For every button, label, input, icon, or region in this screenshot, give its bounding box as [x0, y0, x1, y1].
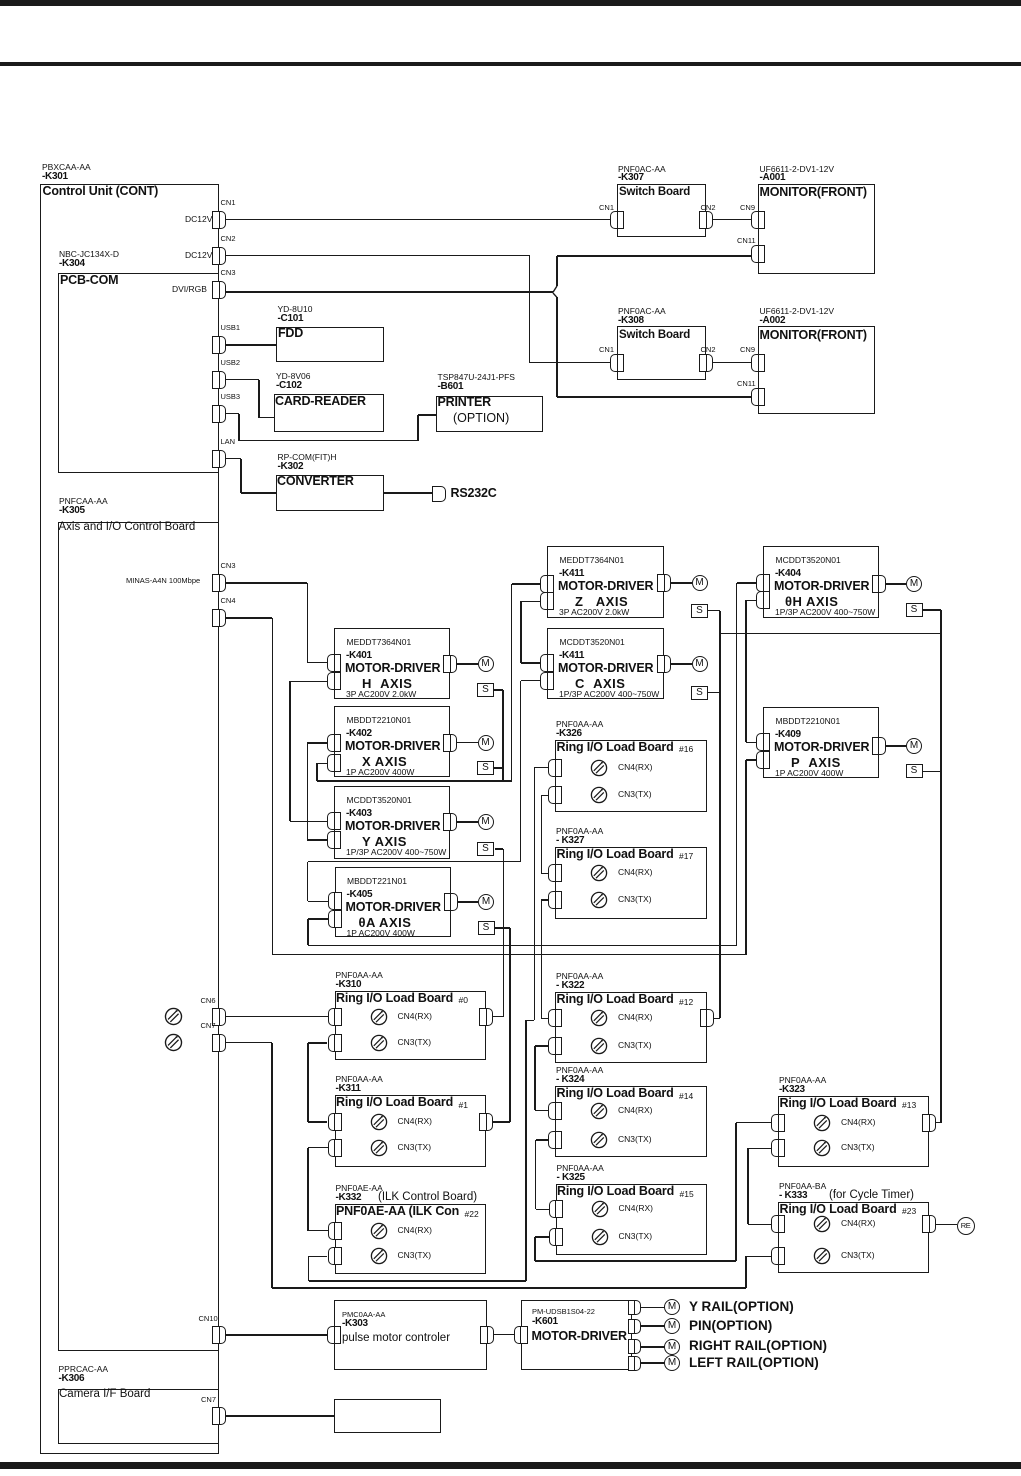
wire up to K326	[525, 1020, 527, 1281]
label UF6611-2-DV1-12V	[760, 307, 835, 316]
label -K307	[618, 173, 644, 184]
wire K411Z lower left	[521, 601, 541, 603]
label -K306	[59, 1374, 85, 1385]
wire USB3 bus to printer	[239, 440, 418, 442]
S symbol K401	[477, 683, 494, 697]
connector CN4(RX) K325	[549, 1200, 563, 1218]
label PNF0AA-AA	[556, 972, 603, 981]
label Z&nbsp;&nbsp;&nbsp;AXIS	[575, 595, 628, 609]
label Ring I/O Load Board	[780, 1203, 897, 1216]
label YD-8U10	[278, 305, 313, 314]
label #22	[465, 1210, 479, 1219]
PCB-COM K304 box	[58, 273, 220, 473]
label CN4(RX)	[398, 1012, 432, 1021]
wire LAN to converter	[241, 492, 276, 494]
motor symbol M K411C	[692, 656, 708, 672]
label PNF0AA-AA	[556, 720, 603, 729]
label #12	[679, 998, 693, 1007]
S symbol K405	[478, 921, 495, 935]
wire into printer	[418, 414, 436, 416]
wire K327 to K322	[541, 900, 543, 1019]
connector CN4(RX) K323	[771, 1114, 785, 1132]
ring I/O load board K325 box	[556, 1184, 708, 1255]
label X AXIS	[362, 755, 407, 769]
label -K403	[346, 809, 372, 820]
wire K404 to K409 down	[745, 600, 747, 742]
axis and I/O control board K305 box	[58, 522, 220, 1351]
connector K405 motor output	[444, 893, 458, 911]
connector CN4(RX) K322	[548, 1009, 562, 1027]
label -B601	[438, 382, 464, 393]
label -K402	[346, 729, 372, 740]
label #0	[459, 996, 468, 1005]
label MINAS-A4N 100Mbpe	[126, 577, 200, 585]
label CN4(RX)	[618, 763, 652, 772]
connector CN4 axis board	[212, 609, 226, 627]
S symbol K402	[477, 761, 494, 775]
label CN3(TX)	[398, 1038, 432, 1047]
ring I/O load board K333 box	[778, 1202, 929, 1273]
label CN2	[221, 235, 236, 243]
wire K325 TX down	[534, 1237, 536, 1261]
symbol CN4 K327	[590, 864, 608, 882]
pulse motor controller K303 box	[334, 1300, 487, 1370]
connector CN4(RX) K311	[328, 1113, 342, 1131]
camera unit box (unlabelled)	[334, 1399, 442, 1434]
motor driver K404 thetaH axis box	[763, 546, 879, 618]
symbol CN3 K326	[590, 786, 608, 804]
wire S K409	[923, 771, 941, 773]
label CN6	[201, 997, 216, 1005]
wire K404 lower left	[746, 600, 757, 602]
symbol CN4 K332	[370, 1222, 388, 1240]
connector USB3	[212, 405, 226, 423]
label -K302	[278, 462, 304, 473]
wire CN2 down	[529, 256, 531, 363]
connector K311 right	[479, 1113, 493, 1131]
wire S bus down to K322	[719, 611, 721, 1019]
wire to K333 RX	[748, 1224, 772, 1226]
label 1P/3P AC200V 400~750W	[559, 690, 659, 699]
wire bus A to K404	[308, 945, 737, 947]
label P&nbsp;&nbsp;AXIS	[791, 756, 841, 770]
wire S K401 down	[502, 690, 504, 781]
switch board K307 box	[617, 184, 706, 238]
wire USB3 down	[238, 414, 240, 441]
wire to K403 upper	[290, 821, 327, 823]
motor driver K601 box	[521, 1300, 632, 1370]
label CN2	[701, 346, 716, 354]
label DC12V	[185, 251, 212, 260]
wire K323 right connector	[936, 1122, 941, 1124]
connector K601 Y RAIL(OPTION)	[628, 1300, 641, 1315]
S symbol K403	[477, 842, 494, 856]
label CN4(RX)	[618, 868, 652, 877]
wire bus B up to CN4	[272, 618, 274, 955]
wire CN10 to K303	[226, 1334, 328, 1336]
connector K333 right	[922, 1215, 936, 1233]
label Axis and I/O Control Board	[59, 521, 196, 533]
label 1P AC200V 400W	[775, 769, 843, 778]
wire K402 lower down	[316, 763, 318, 781]
wire to K324 RX	[535, 1110, 549, 1112]
label -K323	[779, 1085, 805, 1096]
label MOTOR-DRIVER	[774, 741, 869, 754]
connector K323 right	[922, 1114, 936, 1132]
wire to K405 upper	[308, 901, 328, 903]
ring I/O load board K324 box	[555, 1086, 707, 1157]
motor symbol M K403	[478, 814, 494, 830]
connector CN2 K308	[699, 354, 713, 372]
wire K405 lower left	[308, 918, 328, 920]
wire ring return bus	[272, 1287, 746, 1289]
label LAN	[221, 438, 236, 446]
connector CN3(TX) K323	[771, 1139, 785, 1157]
ferrite symbol near CN6	[164, 1007, 183, 1026]
label -K304	[59, 259, 85, 270]
S symbol K404	[906, 603, 923, 617]
connector CN3(TX) K326	[548, 786, 562, 804]
connector CN4(RX) K326	[548, 759, 562, 777]
label PNF0AA-AA	[557, 1164, 604, 1173]
converter K302 box	[276, 475, 384, 511]
label -K332	[336, 1193, 362, 1204]
label 1P AC200V 400W	[347, 929, 415, 938]
label PRINTER	[438, 396, 491, 409]
wire S K405	[495, 927, 510, 929]
wire K323 to K333	[747, 1148, 749, 1224]
wire converter to RS232C	[384, 492, 432, 494]
wire K411C lower left	[521, 680, 541, 682]
label MOTOR-DRIVER	[346, 901, 441, 914]
motor driver K403 Y axis box	[334, 786, 450, 859]
wire USB2 right	[226, 379, 259, 381]
label CN1	[599, 204, 614, 212]
wire under K402 to right	[317, 780, 512, 782]
wire to K327 RX	[541, 873, 548, 875]
wire S K404	[923, 609, 941, 611]
wire K401 lower left	[290, 681, 327, 683]
label MBDDT2210N01	[347, 716, 412, 725]
camera I/F board K306 box	[58, 1389, 219, 1444]
label CN4(RX)	[398, 1226, 432, 1235]
symbol CN3 K332	[370, 1247, 388, 1265]
motor driver K402 X axis box	[334, 706, 450, 777]
label CN4(RX)	[619, 1204, 653, 1213]
connector CN6	[212, 1008, 226, 1026]
wire to K411Z upper	[512, 583, 541, 585]
label -K409	[775, 730, 801, 741]
connector K401 motor output	[443, 655, 457, 673]
wire K326 to K327	[541, 795, 543, 873]
label MONITOR(FRONT)	[760, 329, 867, 342]
wire K405 lower down	[307, 919, 309, 945]
wire to K322 RX	[541, 1018, 548, 1020]
wire K403 to motor	[457, 821, 478, 823]
label Ring I/O Load Board	[780, 1097, 897, 1110]
wire K333 TX down	[745, 1256, 747, 1288]
wire CN3 right	[226, 582, 307, 584]
label PPRCAC-AA	[59, 1365, 109, 1374]
label CN4(RX)	[398, 1117, 432, 1126]
label PNF0AE-AA	[336, 1184, 383, 1193]
wire K401 to K403 down	[289, 681, 291, 821]
wire K311 right connector	[493, 1121, 510, 1123]
connector K411C motor output	[657, 655, 671, 673]
wire S K403	[495, 848, 503, 850]
wire USB3 right	[226, 413, 239, 415]
label 3P AC200V 2.0kW	[559, 608, 629, 617]
wire to motor RIGHT RAIL(OPTION)	[641, 1346, 665, 1348]
connector K404 upper input	[756, 574, 770, 592]
motor symbol M K404	[906, 576, 922, 592]
label PNF0AA-AA	[556, 1066, 603, 1075]
ring I/O load board K332 box	[335, 1204, 487, 1274]
motor symbol M K401	[478, 656, 494, 672]
wire CN1 to K307 CN1	[226, 219, 610, 221]
label -K411	[559, 651, 584, 662]
label CN9	[740, 204, 755, 212]
label CN3(TX)	[618, 895, 652, 904]
wire to A001 CN11	[557, 255, 751, 257]
wire to K323 RX	[736, 1122, 772, 1124]
label USB1	[221, 324, 241, 332]
connector CN3 axis board	[212, 574, 226, 592]
top border bar	[0, 0, 1021, 6]
label - K324	[556, 1075, 584, 1086]
connector CN7 camera board	[212, 1407, 226, 1425]
label PNF0AA-BA	[779, 1182, 826, 1191]
label 1P/3P AC200V 400~750W	[346, 848, 446, 857]
label MOTOR-DRIVER	[774, 580, 869, 593]
connector K403 lower input	[327, 831, 341, 849]
label CN3(TX)	[619, 1232, 653, 1241]
label CN3(TX)	[618, 1135, 652, 1144]
symbol CN4 K322	[590, 1009, 608, 1027]
wire K404 to motor	[886, 583, 907, 585]
wire S K401	[494, 689, 503, 691]
symbol CN3 K324	[590, 1131, 608, 1149]
connector CN2 DC12V	[212, 247, 226, 265]
wire K402 lower left	[317, 763, 327, 765]
label - K325	[557, 1173, 585, 1184]
connector CN3(TX) K325	[549, 1228, 563, 1246]
connector CN1 K308	[610, 354, 624, 372]
label Camera I/F Board	[59, 1388, 150, 1400]
label CN11	[737, 237, 756, 245]
label PCB-COM	[60, 274, 118, 287]
label -K301	[42, 172, 68, 183]
RE symbol	[957, 1217, 975, 1235]
ferrite symbol near CN7	[164, 1033, 183, 1052]
wire S K402	[494, 767, 503, 769]
connector K411Z motor output	[657, 574, 671, 592]
wire K324 TX	[536, 1139, 549, 1141]
label Ring I/O Load Board	[336, 992, 453, 1005]
wire K401 to motor	[457, 663, 478, 665]
label RS232C	[451, 487, 497, 500]
symbol CN4 K333	[813, 1215, 831, 1233]
FDD C101 box	[276, 327, 384, 362]
wire K322 TX	[535, 1045, 549, 1047]
label #16	[679, 745, 693, 754]
symbol CN4 K326	[590, 759, 608, 777]
wire K308 CN2 to A002 CN9	[713, 362, 751, 364]
printer B601 box	[436, 396, 543, 432]
label MEDDT7364N01	[347, 638, 412, 647]
label -K411	[559, 569, 584, 580]
label CN10	[199, 1315, 218, 1323]
connector CN11 A002	[751, 388, 765, 406]
label TSP847U-24J1-PFS	[438, 373, 515, 382]
label - K322	[556, 981, 584, 992]
motor symbol M RIGHT RAIL(OPTION)	[664, 1339, 680, 1355]
connector K403 motor output	[443, 813, 457, 831]
wire to K332 RX	[308, 1230, 328, 1232]
wire USB2 down	[258, 380, 260, 418]
label CN1	[599, 346, 614, 354]
label Ring I/O Load Board	[557, 741, 674, 754]
wire K411C to motor	[671, 663, 692, 665]
symbol CN4 K325	[591, 1200, 609, 1218]
label MBDDT2210N01	[776, 717, 841, 726]
label CN3(TX)	[618, 1041, 652, 1050]
connector CN4(RX) K332	[328, 1222, 342, 1240]
wire down to K405	[307, 862, 309, 902]
wire printer up	[417, 415, 419, 441]
connector USB1	[212, 336, 226, 354]
connector CN3(TX) K311	[328, 1139, 342, 1157]
connector K409 motor output	[872, 737, 886, 755]
label CN4(RX)	[841, 1219, 875, 1228]
symbol CN4 K310	[370, 1008, 388, 1026]
ring I/O load board K322 box	[555, 992, 707, 1063]
symbol CN4 K324	[590, 1102, 608, 1120]
label PM-UDSB1S04-22	[532, 1308, 595, 1316]
connector K411C lower input	[540, 672, 554, 690]
label MOTOR-DRIVER	[345, 662, 440, 675]
wire S K411C	[708, 692, 721, 694]
connector K403 upper input	[327, 812, 341, 830]
wire under K403	[308, 861, 521, 863]
label MOTOR-DRIVER	[532, 1330, 627, 1343]
wire up to K411Z	[511, 584, 513, 781]
connector K411Z upper input	[540, 575, 554, 593]
wire K333 to RE	[936, 1224, 957, 1226]
symbol CN3 K311	[370, 1139, 388, 1157]
label PNFCAA-AA	[59, 497, 108, 506]
connector K402 motor output	[443, 734, 457, 752]
wire jog	[526, 1020, 535, 1022]
ring I/O load board K326 box	[555, 740, 707, 812]
label MCDDT3520N01	[347, 796, 412, 805]
connector CN7	[212, 1034, 226, 1052]
wire LAN down	[240, 459, 242, 494]
label Ring I/O Load Board	[557, 1087, 674, 1100]
label CN4(RX)	[618, 1013, 652, 1022]
label CN3	[221, 269, 236, 277]
ring I/O load board K310 box	[335, 991, 487, 1061]
label CN7	[201, 1396, 216, 1404]
label CN3(TX)	[398, 1251, 432, 1260]
connector CN3(TX) K332	[328, 1247, 342, 1265]
label (for Cycle Timer)	[829, 1189, 914, 1201]
wire video bus lower	[556, 297, 558, 397]
label - K333	[779, 1191, 807, 1202]
label PNF0AA-AA	[779, 1076, 826, 1085]
label MBDDT221N01	[347, 877, 407, 886]
label DVI/RGB	[172, 285, 207, 294]
label -C102	[276, 381, 302, 392]
connector CN11 A001	[751, 245, 765, 263]
label (OPTION)	[453, 412, 509, 425]
label &theta;H AXIS	[785, 595, 838, 609]
label (ILK Control Board)	[378, 1191, 477, 1203]
wire K411C down	[520, 681, 522, 862]
wire K402 to motor	[457, 742, 478, 744]
connector CN9 A002	[751, 354, 765, 372]
wire K307 CN2 to A001 CN9	[713, 219, 751, 221]
label Control Unit (CONT)	[43, 185, 159, 198]
wire K326 TX	[541, 795, 548, 797]
wire to K326 RX	[534, 767, 548, 769]
connector K601 PIN(OPTION)	[628, 1319, 641, 1334]
wire up to K326 RX	[534, 768, 536, 1021]
connector K303 output	[480, 1326, 494, 1344]
label MEDDT7364N01	[560, 556, 625, 565]
connector K405 lower input	[328, 910, 342, 928]
label pulse motor controler	[342, 1332, 450, 1344]
connector CN4(RX) K310	[328, 1008, 342, 1026]
wire S crossover	[720, 633, 941, 635]
ring I/O load board K323 box	[778, 1096, 929, 1167]
wire to motor Y RAIL(OPTION)	[641, 1307, 665, 1309]
wire K332 TX down	[308, 1256, 310, 1281]
connector K411C upper input	[540, 654, 554, 672]
label PNF0AE-AA (ILK Con	[336, 1205, 459, 1218]
label CONVERTER	[277, 475, 354, 488]
wire K323 TX	[748, 1148, 772, 1150]
label #14	[679, 1092, 693, 1101]
wire CN3 down	[307, 583, 309, 663]
connector K405 upper input	[328, 892, 342, 910]
label #23	[902, 1207, 916, 1216]
label USB2	[221, 359, 241, 367]
S symbol K411Z	[691, 604, 708, 618]
label -K401	[346, 651, 372, 662]
connector K411Z lower input	[540, 592, 554, 610]
connector K601 LEFT RAIL(OPTION)	[628, 1356, 641, 1371]
wire K411Z to K411C down	[520, 601, 522, 663]
connector K401 upper input	[327, 654, 341, 672]
label PNF0AA-AA	[336, 1075, 383, 1084]
connector CN4(RX) K333	[771, 1215, 785, 1233]
wire CN3 DVI/RGB	[226, 291, 553, 293]
label NBC-JC134X-D	[59, 250, 119, 259]
symbol CN3 K310	[370, 1034, 388, 1052]
label #1	[459, 1101, 468, 1110]
wire K310 TX	[308, 1042, 328, 1044]
label Ring I/O Load Board	[557, 1185, 674, 1198]
connector CN3(TX) K324	[548, 1131, 562, 1149]
symbol CN3 K322	[590, 1037, 608, 1055]
connector K310 right	[479, 1008, 493, 1026]
label PNF0AC-AA	[618, 165, 666, 174]
label Ring I/O Load Board	[336, 1096, 453, 1109]
label -K601	[532, 1317, 558, 1328]
label Ring I/O Load Board	[557, 848, 674, 861]
wire to K409 upper	[746, 742, 757, 744]
